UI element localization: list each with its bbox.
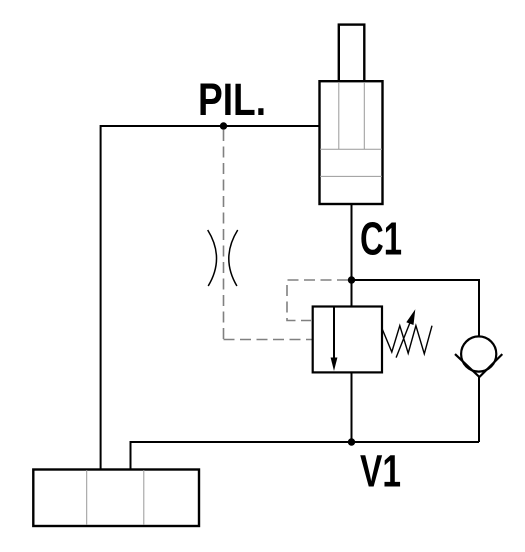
wire: C1 junction to check valve branch	[352, 280, 480, 337]
node V1 junction	[348, 438, 355, 445]
node PIL junction	[220, 122, 227, 129]
pilot dashed line: C1 junction to valve upper pilot	[287, 280, 348, 321]
wire: V1 horizontal	[131, 441, 480, 443]
wire: check valve lower	[478, 377, 480, 443]
orifice (restriction) left arc	[208, 230, 217, 286]
counterbalance valve body	[313, 307, 382, 373]
svg-text:V1: V1	[360, 446, 401, 497]
cylinder piston bottom line	[320, 175, 382, 177]
valve internal flow arrowhead	[331, 358, 338, 372]
manifold block	[33, 470, 199, 527]
valve adjustment arrowhead	[406, 309, 415, 325]
check valve circle	[461, 336, 496, 371]
manifold divider right	[143, 470, 145, 525]
svg-text:C1: C1	[360, 213, 402, 265]
pilot dashed line: PIL node down through orifice	[223, 130, 225, 340]
node C1 junction	[348, 276, 355, 283]
valve internal flow path line	[333, 307, 335, 359]
valve adjustment arrow shaft	[396, 318, 412, 358]
check valve seat	[455, 354, 502, 377]
wire: cylinder to C1 junction	[351, 203, 353, 280]
cylinder rod (outside)	[339, 25, 365, 82]
svg-text:PIL.: PIL.	[198, 74, 266, 125]
manifold divider left	[86, 470, 88, 525]
wire: left vertical line to manifold	[100, 125, 102, 470]
cylinder barrel	[320, 81, 383, 204]
valve spring	[382, 326, 432, 354]
wire: pilot line PIL. horizontal	[101, 125, 320, 127]
orifice (restriction) right arc	[229, 230, 238, 286]
wire: C1 junction to valve top	[351, 280, 353, 307]
wire: valve bottom to V1 junction	[351, 372, 353, 442]
wire: V1 drop to manifold	[130, 441, 132, 470]
cylinder rod inside barrel (thin lines)	[338, 82, 340, 149]
cylinder piston top line	[320, 148, 382, 150]
pilot dashed line: orifice to valve left port	[224, 339, 313, 341]
